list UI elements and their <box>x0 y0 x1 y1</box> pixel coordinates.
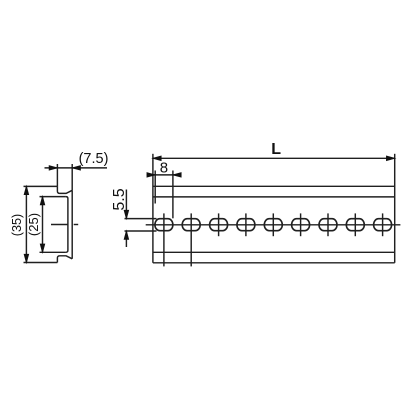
svg-text:(7.5): (7.5) <box>79 151 109 167</box>
svg-text:(35): (35) <box>10 214 24 236</box>
svg-text:5.5: 5.5 <box>111 188 128 210</box>
svg-text:(25): (25) <box>26 213 41 236</box>
svg-text:8: 8 <box>160 160 168 177</box>
svg-text:L: L <box>271 141 281 158</box>
